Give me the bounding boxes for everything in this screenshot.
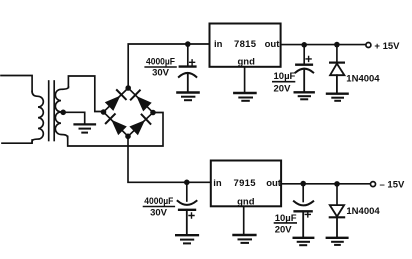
diode D2 bridge right-to-top	[131, 90, 152, 111]
wire junction to C4	[302, 184, 304, 202]
ground C3	[176, 235, 198, 243]
regulator U2 7915 box	[211, 161, 281, 207]
svg-text:20V: 20V	[274, 83, 292, 94]
transformer T1 core	[48, 81, 50, 141]
transformer T1 primary bottom lead wire	[2, 140, 32, 143]
node junction bottom 10uF	[300, 181, 306, 187]
label C3 4000uF / 30V	[144, 196, 173, 218]
label C4 10uF / 20V	[275, 213, 297, 236]
diode D1 bridge left-to-top	[105, 90, 126, 111]
wire secondary bottom AC rail	[68, 113, 163, 147]
ground C1	[177, 93, 198, 101]
label C2 10uF / 20V	[274, 71, 296, 94]
label C1 4000uF / 30V	[146, 57, 175, 79]
terminal +15V	[366, 43, 371, 48]
svg-text:4000µF: 4000µF	[146, 57, 175, 68]
transformer T1 primary winding	[32, 92, 43, 142]
wire junction to D5	[336, 45, 338, 63]
svg-text:20V: 20V	[275, 225, 293, 236]
wire bridge edge bottom-right	[128, 113, 153, 137]
capacitor C1 4000uF top	[179, 67, 196, 92]
node junction bottom 1N4004	[334, 181, 340, 187]
wire bridge bottom to 7915 in (negative DC rail)	[128, 136, 211, 182]
wire junction to D6	[336, 184, 338, 205]
ground center tap	[75, 124, 96, 132]
wire U2 out rail to -15V terminal	[281, 183, 370, 185]
node junction top 4000uF	[185, 41, 191, 47]
label C4 plus sign	[305, 212, 310, 217]
wire bridge top to 7815 in (positive DC rail)	[128, 44, 209, 88]
transformer T1 primary top lead wire	[1, 76, 32, 92]
node junction top 1N4004	[334, 42, 340, 48]
label C1 plus sign	[190, 60, 195, 65]
wire junction to C1	[187, 44, 189, 66]
node junction top 10uF	[301, 42, 307, 48]
ground C4	[294, 238, 314, 245]
wire junction to C3	[186, 182, 188, 201]
node bridge bottom vertex	[125, 134, 131, 140]
regulator U1 7815 box	[210, 24, 281, 67]
svg-text:+ 15V: + 15V	[374, 41, 400, 52]
svg-text:10µF: 10µF	[274, 71, 296, 82]
svg-text:4000µF: 4000µF	[144, 196, 173, 207]
transformer T1 secondary winding	[55, 87, 68, 138]
svg-text:1N4004: 1N4004	[346, 74, 380, 85]
svg-text:– 15V: – 15V	[380, 179, 405, 190]
svg-text:out: out	[266, 178, 282, 189]
diode D3 bridge bottom-to-left	[106, 114, 127, 135]
svg-text:1N4004: 1N4004	[346, 206, 380, 217]
ground D5	[327, 94, 348, 101]
svg-text:7815: 7815	[234, 39, 257, 50]
diode D4 bridge bottom-to-right	[129, 115, 150, 136]
ground D6	[327, 238, 348, 245]
diode D6 1N4004 bottom	[330, 205, 344, 237]
node bridge left vertex	[101, 109, 107, 115]
label C3 plus sign	[189, 213, 194, 218]
wire bridge edge right-top	[128, 88, 153, 113]
svg-text:gnd: gnd	[238, 57, 256, 68]
node center tap	[60, 110, 66, 116]
svg-text:7915: 7915	[234, 178, 257, 189]
svg-text:30V: 30V	[152, 68, 170, 79]
capacitor C3 4000uF bottom	[178, 201, 197, 235]
node junction bottom 4000uF	[184, 180, 190, 186]
ground C2	[295, 92, 314, 99]
wire bridge edge bottom-left	[104, 112, 129, 136]
node bridge right vertex	[150, 110, 156, 116]
svg-text:out: out	[265, 39, 281, 50]
diode D5 1N4004 top	[330, 63, 344, 94]
label C2 plus sign	[306, 56, 311, 61]
wire secondary top to bridge left	[68, 76, 103, 112]
terminal -15V	[371, 182, 376, 187]
wire bridge edge left-top	[104, 88, 129, 112]
wire center tap to ground	[63, 112, 84, 124]
ground U1	[234, 93, 255, 101]
wire U1 out rail to +15V terminal	[281, 44, 366, 46]
node bridge top vertex	[125, 85, 131, 91]
svg-text:30V: 30V	[150, 207, 168, 218]
svg-text:in: in	[213, 178, 222, 189]
wire U2 gnd pin	[243, 206, 245, 234]
capacitor C4 10uF bottom	[294, 201, 313, 237]
svg-text:in: in	[214, 39, 223, 50]
svg-text:gnd: gnd	[237, 197, 255, 208]
wire U1 gnd pin	[244, 67, 246, 93]
wire junction to C2	[303, 45, 305, 64]
capacitor C2 10uF top	[296, 65, 314, 92]
ground U2	[234, 235, 256, 243]
